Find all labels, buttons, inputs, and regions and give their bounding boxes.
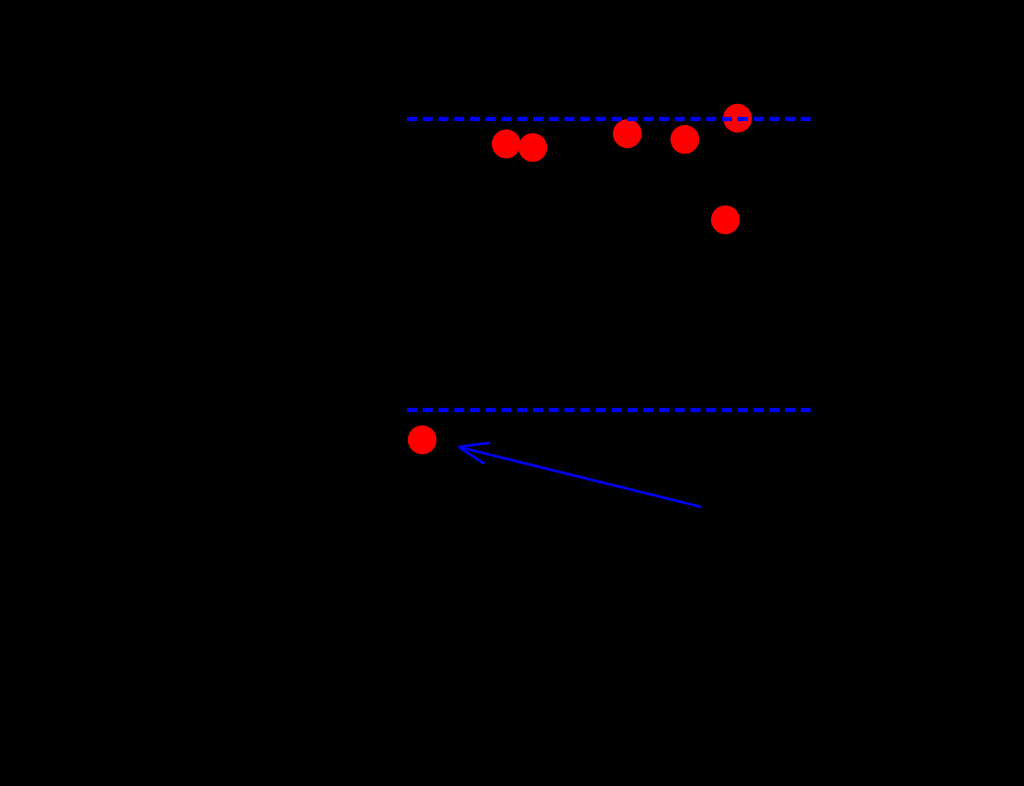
annotation arrow shaft: [460, 447, 702, 507]
data point 3: [613, 119, 642, 148]
data point 6: [711, 205, 740, 234]
lower threshold dashed line: [407, 408, 811, 412]
data point 4: [670, 125, 699, 154]
annotation arrow head lower barb: [459, 447, 485, 464]
data point 1: [492, 130, 521, 159]
annotation arrow head upper barb: [459, 443, 490, 447]
data point 7 (outlier): [408, 425, 437, 454]
data point 2: [518, 133, 547, 162]
data point 5: [723, 104, 752, 133]
upper threshold dashed line: [407, 117, 811, 121]
